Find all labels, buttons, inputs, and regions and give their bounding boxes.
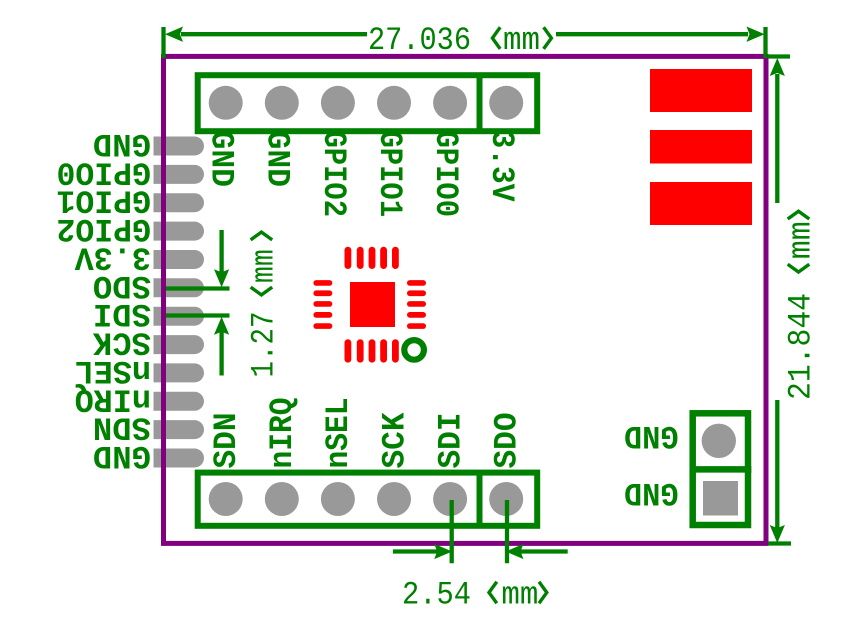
svg-text:SCK: SCK <box>376 412 413 468</box>
svg-text:GPIO2: GPIO2 <box>315 131 352 218</box>
svg-text:SDN: SDN <box>208 413 245 469</box>
svg-text:2.54: 2.54 <box>402 576 471 613</box>
svg-text:3.3V: 3.3V <box>483 131 520 202</box>
svg-text:1.27: 1.27 <box>245 312 282 378</box>
svg-text:nIRQ: nIRQ <box>264 398 301 469</box>
svg-text:SDI: SDI <box>432 413 469 469</box>
svg-text:27.036: 27.036 <box>368 22 471 59</box>
svg-text:21.844: 21.844 <box>783 293 820 400</box>
svg-text:nSEL: nSEL <box>320 398 357 469</box>
svg-text:GND: GND <box>203 131 240 188</box>
svg-text:GND: GND <box>259 131 296 188</box>
svg-text:GPIO1: GPIO1 <box>371 131 408 218</box>
svg-text:GPIO0: GPIO0 <box>427 131 464 218</box>
svg-text:GND: GND <box>624 474 679 511</box>
svg-text:mm: mm <box>245 249 282 283</box>
svg-text:SDO: SDO <box>489 413 526 469</box>
svg-text:GND: GND <box>93 437 151 474</box>
svg-text:mm: mm <box>783 221 820 259</box>
svg-text:mm: mm <box>503 22 540 59</box>
svg-text:mm: mm <box>501 576 538 613</box>
svg-text:GND: GND <box>624 417 679 454</box>
